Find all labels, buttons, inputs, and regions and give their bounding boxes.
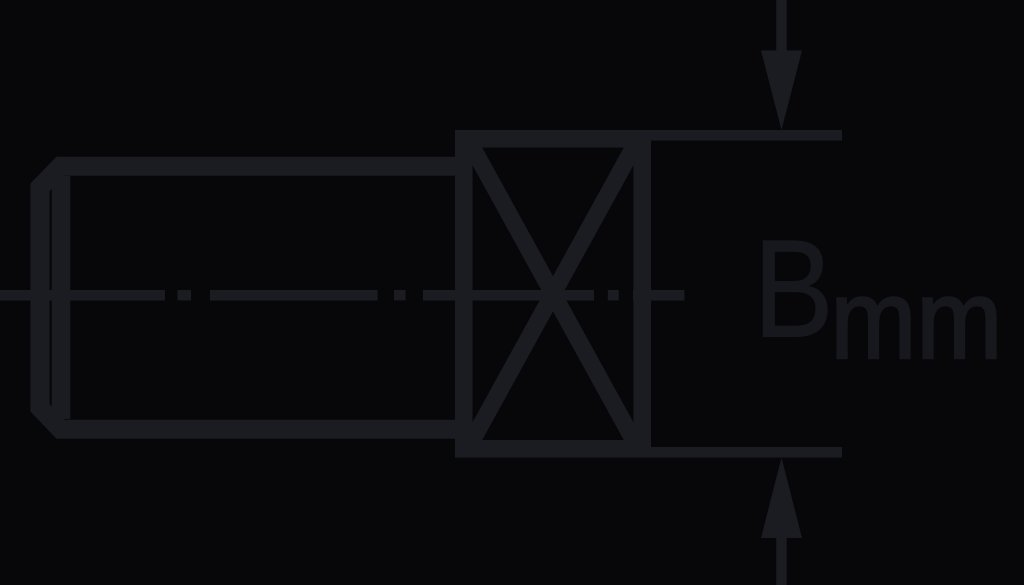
crossed box (bearing symbol)	[464, 139, 643, 449]
box diagonal 2	[473, 148, 634, 441]
centerline dash-dot	[0, 290, 684, 301]
top arrowhead	[761, 51, 802, 131]
svg-text:mm: mm	[830, 257, 1002, 382]
bottom arrow shaft	[776, 537, 787, 585]
bottom dimension line	[640, 447, 842, 458]
top dimension line	[640, 130, 842, 141]
box diagonal 1	[473, 148, 634, 441]
bottom arrowhead	[761, 458, 802, 539]
chamfer edge line	[52, 176, 71, 419]
top arrow shaft	[776, 0, 787, 56]
shaft outline with chamfered left end	[40, 166, 462, 429]
svg-text:B: B	[753, 210, 833, 366]
